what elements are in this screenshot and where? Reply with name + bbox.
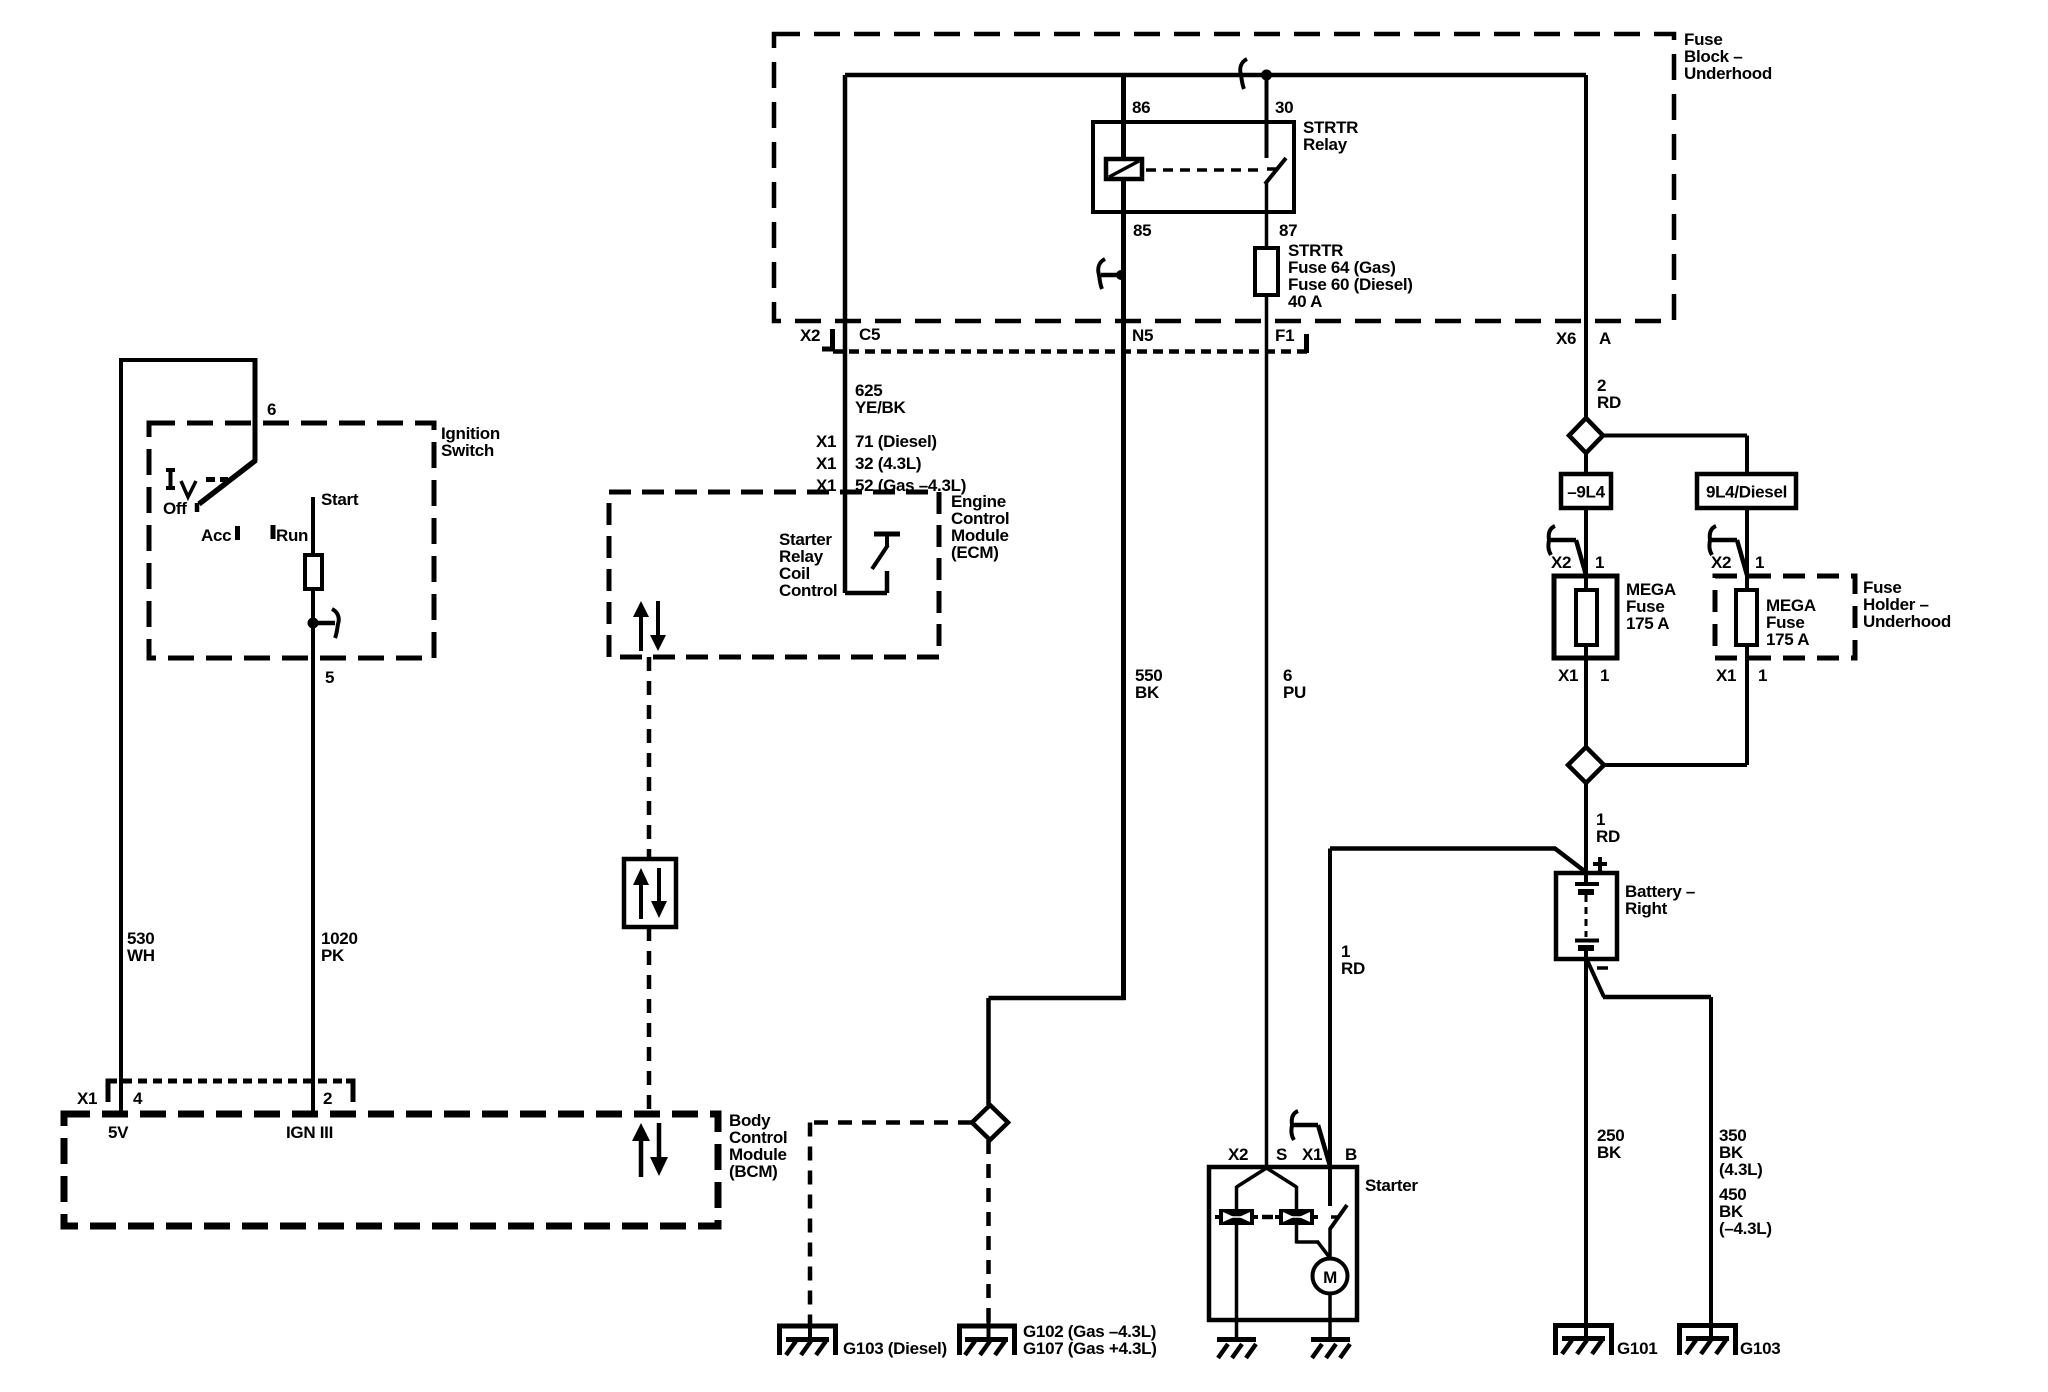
svg-text:X1: X1 xyxy=(816,454,836,473)
svg-text:S: S xyxy=(1276,1145,1287,1164)
wire label 1020 PK xyxy=(321,929,358,965)
svg-text:G103: G103 xyxy=(1740,1339,1780,1358)
battery plates xyxy=(1575,873,1599,959)
svg-text:(ECM): (ECM) xyxy=(951,543,999,562)
svg-text:175 A: 175 A xyxy=(1766,630,1809,649)
svg-text:1: 1 xyxy=(1758,666,1767,685)
wire pin87 fuse to connector F1 and starter S xyxy=(1265,295,1269,1167)
off contact tick xyxy=(195,503,200,512)
serial data dashed wire box to BCM xyxy=(647,927,652,1114)
svg-text:X2: X2 xyxy=(1711,553,1731,572)
svg-text:Run: Run xyxy=(276,526,308,545)
label MEGA Fuse 175A right xyxy=(1766,596,1816,649)
svg-text:87: 87 xyxy=(1279,221,1297,240)
svg-text:Right: Right xyxy=(1625,899,1668,918)
wire through mega fuse 2 xyxy=(1745,576,1749,658)
svg-text:5V: 5V xyxy=(108,1123,129,1142)
bracket X2 xyxy=(822,329,833,349)
wire bus top horizontal inside fuse block xyxy=(845,73,1586,78)
svg-text:B: B xyxy=(1345,1145,1357,1164)
wire 9L4/Diesel to mega fuse 2 xyxy=(1745,508,1749,576)
svg-text:Relay: Relay xyxy=(1303,135,1348,154)
position mark I xyxy=(166,468,175,490)
svg-text:N5: N5 xyxy=(1132,326,1153,345)
svg-text:C5: C5 xyxy=(859,325,880,344)
wire winding1 to ground xyxy=(1235,1225,1239,1338)
svg-text:40 A: 40 A xyxy=(1288,292,1322,311)
starter pin labels X2 S X1 B xyxy=(1228,1145,1357,1164)
starter hold-in winding xyxy=(1275,1209,1318,1225)
dash between windings xyxy=(1262,1215,1273,1220)
svg-text:M: M xyxy=(1323,1268,1337,1287)
svg-text:G103 (Diesel): G103 (Diesel) xyxy=(843,1339,947,1358)
label 450 BK -4.3L xyxy=(1719,1185,1772,1238)
label Fuse Holder Underhood xyxy=(1863,578,1951,631)
option box -9L4 xyxy=(1561,474,1611,508)
clip X2 mega fuse 1 xyxy=(1548,526,1586,575)
label Ignition Switch xyxy=(441,424,500,460)
BCM X1 connector dotted row xyxy=(108,1079,353,1084)
svg-text:4: 4 xyxy=(133,1089,143,1108)
wire 550 BK elbow xyxy=(989,998,1126,1105)
svg-text:(BCM): (BCM) xyxy=(729,1162,778,1181)
start contact wire xyxy=(311,497,315,555)
wire 625 YE/BK vertical from bus to ECM xyxy=(843,75,848,593)
switch lever xyxy=(199,460,256,504)
wire starter B vertical xyxy=(1328,849,1332,1168)
option box 9L4/Diesel xyxy=(1697,474,1796,508)
svg-text:5: 5 xyxy=(325,668,334,687)
relay contact blade xyxy=(1265,158,1286,184)
wire label 550 BK xyxy=(1135,666,1162,702)
fuse holder dashed box xyxy=(1715,576,1855,658)
ECM driver switch xyxy=(845,534,900,593)
dashed ground wire left down xyxy=(808,1123,813,1325)
clip on start wire xyxy=(308,609,339,638)
svg-text:6: 6 xyxy=(267,400,276,419)
pin rows X1 71/32/52 xyxy=(816,432,966,495)
ground G103 diesel xyxy=(780,1322,836,1355)
label 1 RD battery feed xyxy=(1596,810,1620,846)
svg-text:1: 1 xyxy=(1755,553,1764,572)
svg-text:X1: X1 xyxy=(77,1089,97,1108)
wire label 625 YE/BK xyxy=(855,381,906,417)
starter pull-in winding xyxy=(1215,1209,1258,1225)
fuse block underhood dashed box xyxy=(774,34,1674,321)
svg-text:(–4.3L): (–4.3L) xyxy=(1719,1219,1772,1238)
ignition switch dashed box xyxy=(149,423,434,658)
wire motor to ground xyxy=(1328,1293,1332,1338)
svg-text:IGN III: IGN III xyxy=(286,1123,333,1142)
mega fuse 1 element xyxy=(1576,590,1597,645)
labels X2 1 mega fuse 1 xyxy=(1551,553,1604,572)
labels X1 1 mega fuse 2 xyxy=(1716,666,1767,685)
clip X2 mega fuse 2 xyxy=(1709,526,1747,575)
wire battery negative branch xyxy=(1587,960,1711,1324)
wire label 6 PU xyxy=(1283,666,1306,702)
ECM serial data arrows xyxy=(633,601,666,651)
svg-text:G107 (Gas +4.3L): G107 (Gas +4.3L) xyxy=(1023,1339,1157,1358)
starter B contact xyxy=(1330,1167,1347,1258)
svg-text:Acc: Acc xyxy=(201,526,231,545)
svg-text:71 (Diesel): 71 (Diesel) xyxy=(855,432,937,451)
svg-text:X2: X2 xyxy=(1551,553,1571,572)
dashed ground wire down xyxy=(986,1140,991,1324)
resistor in start circuit xyxy=(305,555,322,589)
svg-text:Underhood: Underhood xyxy=(1684,64,1772,83)
starter box xyxy=(1209,1167,1357,1320)
ground G103 right xyxy=(1680,1322,1736,1355)
label MEGA Fuse 175A left xyxy=(1626,580,1676,633)
label 350 BK 4.3L xyxy=(1719,1126,1763,1179)
wire diamond to -9L4 xyxy=(1584,453,1588,474)
bracket X1 left xyxy=(108,1081,116,1102)
mega fuse 2 element xyxy=(1736,590,1757,645)
position mark V xyxy=(181,481,196,497)
plus label battery xyxy=(1593,857,1607,871)
serial data dashed wire ECM to box xyxy=(647,657,652,859)
labels X2 1 mega fuse 2 xyxy=(1711,553,1764,572)
svg-text:175 A: 175 A xyxy=(1626,614,1669,633)
ECM dashed box xyxy=(609,492,939,657)
starter S wire split xyxy=(1237,1168,1297,1209)
svg-text:RD: RD xyxy=(1597,393,1621,412)
wire winding2 to motor xyxy=(1297,1225,1331,1258)
Acc tick xyxy=(235,526,240,540)
svg-text:X1: X1 xyxy=(816,432,836,451)
wire diamond to 9L4 branch xyxy=(1603,436,1747,475)
label 1 RD starter feed xyxy=(1341,942,1365,978)
svg-text:1: 1 xyxy=(1600,666,1609,685)
label G102 G107 xyxy=(1023,1322,1157,1358)
connector row X2/C5 N5 F1 dotted xyxy=(833,349,1309,354)
label Fuse Block Underhood xyxy=(1684,30,1772,83)
svg-text:X2: X2 xyxy=(800,326,820,345)
relay coil xyxy=(1106,159,1142,179)
svg-text:Control: Control xyxy=(779,581,837,600)
wire mega fuse 1 to lower diamond xyxy=(1584,658,1588,747)
starter ground right xyxy=(1311,1340,1350,1359)
Run tick xyxy=(271,525,276,539)
svg-text:G101: G101 xyxy=(1617,1339,1657,1358)
label 250 BK xyxy=(1597,1126,1624,1162)
wire mega fuse 2 down and left xyxy=(1604,658,1747,765)
svg-text:2: 2 xyxy=(323,1089,332,1108)
motor M xyxy=(1313,1259,1348,1294)
battery box xyxy=(1556,873,1617,959)
node junction dot at pin30 feed xyxy=(1261,70,1272,81)
wire relay pin30 vertical xyxy=(1265,75,1269,158)
wire label 530 WH xyxy=(127,929,155,965)
starter ground left xyxy=(1217,1340,1256,1359)
svg-text:X6: X6 xyxy=(1556,329,1576,348)
label Battery Right xyxy=(1625,882,1695,918)
wire relay pin85 down xyxy=(1121,179,1126,1000)
svg-text:Starter: Starter xyxy=(1365,1176,1418,1195)
pin 6 wire into switch xyxy=(253,358,258,461)
svg-text:X1: X1 xyxy=(1716,666,1736,685)
BCM serial arrows xyxy=(632,1123,668,1177)
fuse STRTR 40A body xyxy=(1255,248,1278,295)
ground G101 xyxy=(1556,1322,1612,1355)
svg-text:Off: Off xyxy=(163,499,187,518)
svg-text:(4.3L): (4.3L) xyxy=(1719,1160,1763,1179)
clip at top junction xyxy=(1250,73,1260,77)
svg-text:F1: F1 xyxy=(1275,326,1294,345)
wire X6-A from bus down to diamond xyxy=(1584,75,1588,418)
wire resistor to pin5 xyxy=(311,589,315,1114)
svg-text:WH: WH xyxy=(127,946,155,965)
svg-text:RD: RD xyxy=(1341,959,1365,978)
label Body Control Module BCM xyxy=(729,1111,787,1181)
label 2 RD xyxy=(1597,376,1621,412)
splice diamond S171 xyxy=(972,1105,1008,1140)
svg-text:1: 1 xyxy=(1595,553,1604,572)
svg-text:30: 30 xyxy=(1275,98,1293,117)
label Engine Control Module ECM xyxy=(951,492,1009,562)
minus label battery xyxy=(1597,966,1608,970)
bracket X1 right xyxy=(346,1081,353,1102)
wire 5V feed top xyxy=(121,358,255,1114)
svg-text:A: A xyxy=(1599,329,1611,348)
clip on starter B wire xyxy=(1291,1111,1330,1166)
svg-text:X1: X1 xyxy=(1302,1145,1322,1164)
labels X1 1 mega fuse 1 xyxy=(1558,666,1609,685)
splice diamond lower xyxy=(1568,747,1604,783)
svg-text:Switch: Switch xyxy=(441,441,494,460)
wire relay pin87 down to fuse xyxy=(1265,181,1269,248)
BCM dashed box xyxy=(64,1114,718,1226)
svg-text:PK: PK xyxy=(321,946,345,965)
svg-text:BK: BK xyxy=(1135,683,1160,702)
svg-text:PU: PU xyxy=(1283,683,1306,702)
label STRTR Fuse 64 Fuse 60 40A xyxy=(1288,241,1413,311)
svg-text:Underhood: Underhood xyxy=(1863,612,1951,631)
wire battery positive to starter B xyxy=(1330,849,1587,874)
position dashes xyxy=(206,477,228,482)
wire diamond to battery xyxy=(1584,783,1588,873)
svg-text:85: 85 xyxy=(1133,221,1151,240)
dashed ground wire left xyxy=(810,1120,972,1125)
svg-text:BK: BK xyxy=(1597,1143,1622,1162)
svg-text:X2: X2 xyxy=(1228,1145,1248,1164)
mega fuse 1 box xyxy=(1554,576,1617,658)
arrows in serial data box xyxy=(633,868,667,919)
svg-text:YE/BK: YE/BK xyxy=(855,398,906,417)
svg-text:86: 86 xyxy=(1132,98,1150,117)
relay STRTR box xyxy=(1093,122,1294,212)
ground G102/G107 xyxy=(960,1322,1015,1355)
splice diamond top xyxy=(1569,418,1603,453)
serial data symbol box xyxy=(624,859,676,927)
label STRTR Relay xyxy=(1303,118,1358,154)
relay link dashed xyxy=(1146,168,1262,172)
svg-text:9L4/Diesel: 9L4/Diesel xyxy=(1706,483,1787,502)
svg-text:–9L4: –9L4 xyxy=(1567,483,1605,502)
label Starter Relay Coil Control xyxy=(779,530,837,600)
svg-text:RD: RD xyxy=(1596,827,1620,846)
svg-text:32 (4.3L): 32 (4.3L) xyxy=(855,454,921,473)
svg-text:Start: Start xyxy=(321,490,359,509)
wire through mega fuse 1 xyxy=(1584,576,1588,658)
bracket F1 xyxy=(1304,334,1309,353)
wire relay pin86 vertical xyxy=(1121,75,1126,159)
clip on pin85 wire xyxy=(1098,259,1126,289)
svg-text:X1: X1 xyxy=(1558,666,1578,685)
wire battery negative down xyxy=(1584,959,1588,1324)
wire -9L4 to mega fuse 1 xyxy=(1584,508,1588,576)
